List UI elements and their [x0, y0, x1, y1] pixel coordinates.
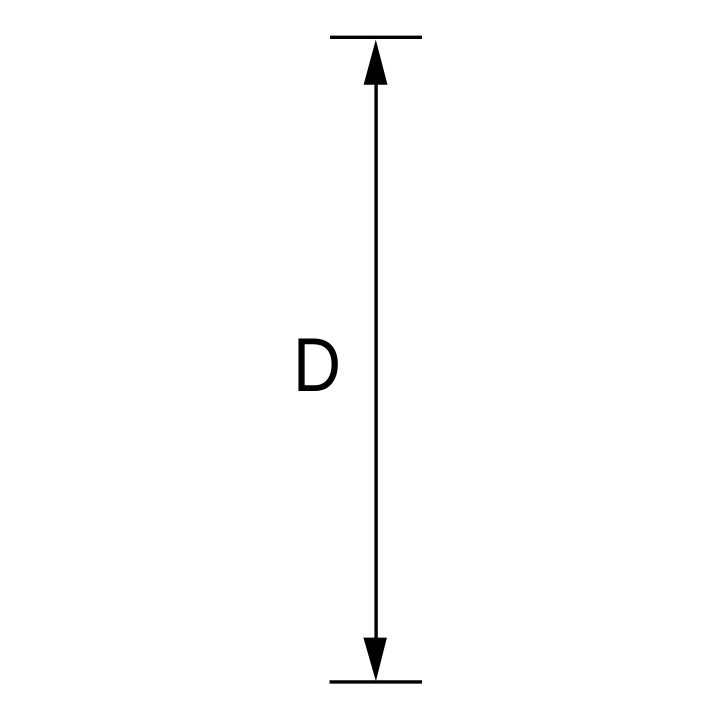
bottom extension tick line: [330, 680, 423, 683]
svg-text:D: D: [293, 323, 341, 408]
top arrowhead: [364, 40, 388, 85]
top extension tick line: [330, 36, 422, 39]
wire: vertical dimension line: [374, 60, 377, 660]
label D: [293, 323, 341, 408]
bottom arrowhead: [363, 638, 387, 682]
